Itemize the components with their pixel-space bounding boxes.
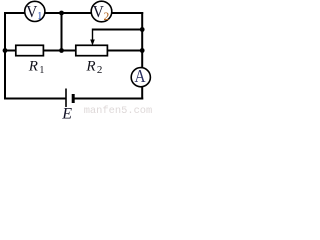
svg-text:1: 1 — [37, 10, 43, 22]
wire top — [4, 12, 143, 14]
svg-text:2: 2 — [97, 64, 103, 76]
node junction wiper-right wire — [140, 27, 145, 32]
wire bottom right of battery — [74, 98, 143, 100]
svg-text:2: 2 — [104, 11, 110, 23]
ammeter A — [131, 66, 150, 87]
svg-text:A: A — [135, 66, 146, 86]
svg-text:R: R — [85, 58, 95, 74]
wire resistor row — [5, 50, 142, 52]
node junction R1-R2 — [59, 48, 64, 53]
wire wiper shaft — [92, 29, 94, 42]
wiper arrowhead — [90, 40, 95, 46]
svg-text:manfen5.com: manfen5.com — [84, 105, 153, 117]
node junction top middle — [59, 11, 64, 16]
battery E short plate — [72, 94, 75, 103]
wire middle vertical — [61, 13, 63, 51]
voltmeter V2 — [91, 1, 112, 23]
svg-text:1: 1 — [39, 65, 44, 76]
resistor R2 (rheostat) — [76, 45, 108, 55]
battery E long plate — [65, 89, 67, 108]
svg-text:E: E — [61, 105, 72, 119]
wire wiper horizontal — [93, 29, 143, 31]
node junction left wire — [3, 48, 8, 53]
svg-text:V: V — [26, 3, 37, 21]
wire bottom left of battery — [4, 98, 66, 100]
svg-text:V: V — [93, 3, 104, 21]
wire right — [141, 12, 143, 100]
node junction R2-right wire — [140, 48, 145, 53]
voltmeter V1 — [25, 1, 45, 22]
svg-text:R: R — [28, 58, 38, 74]
wire left — [4, 12, 6, 100]
resistor R1 — [16, 45, 44, 55]
